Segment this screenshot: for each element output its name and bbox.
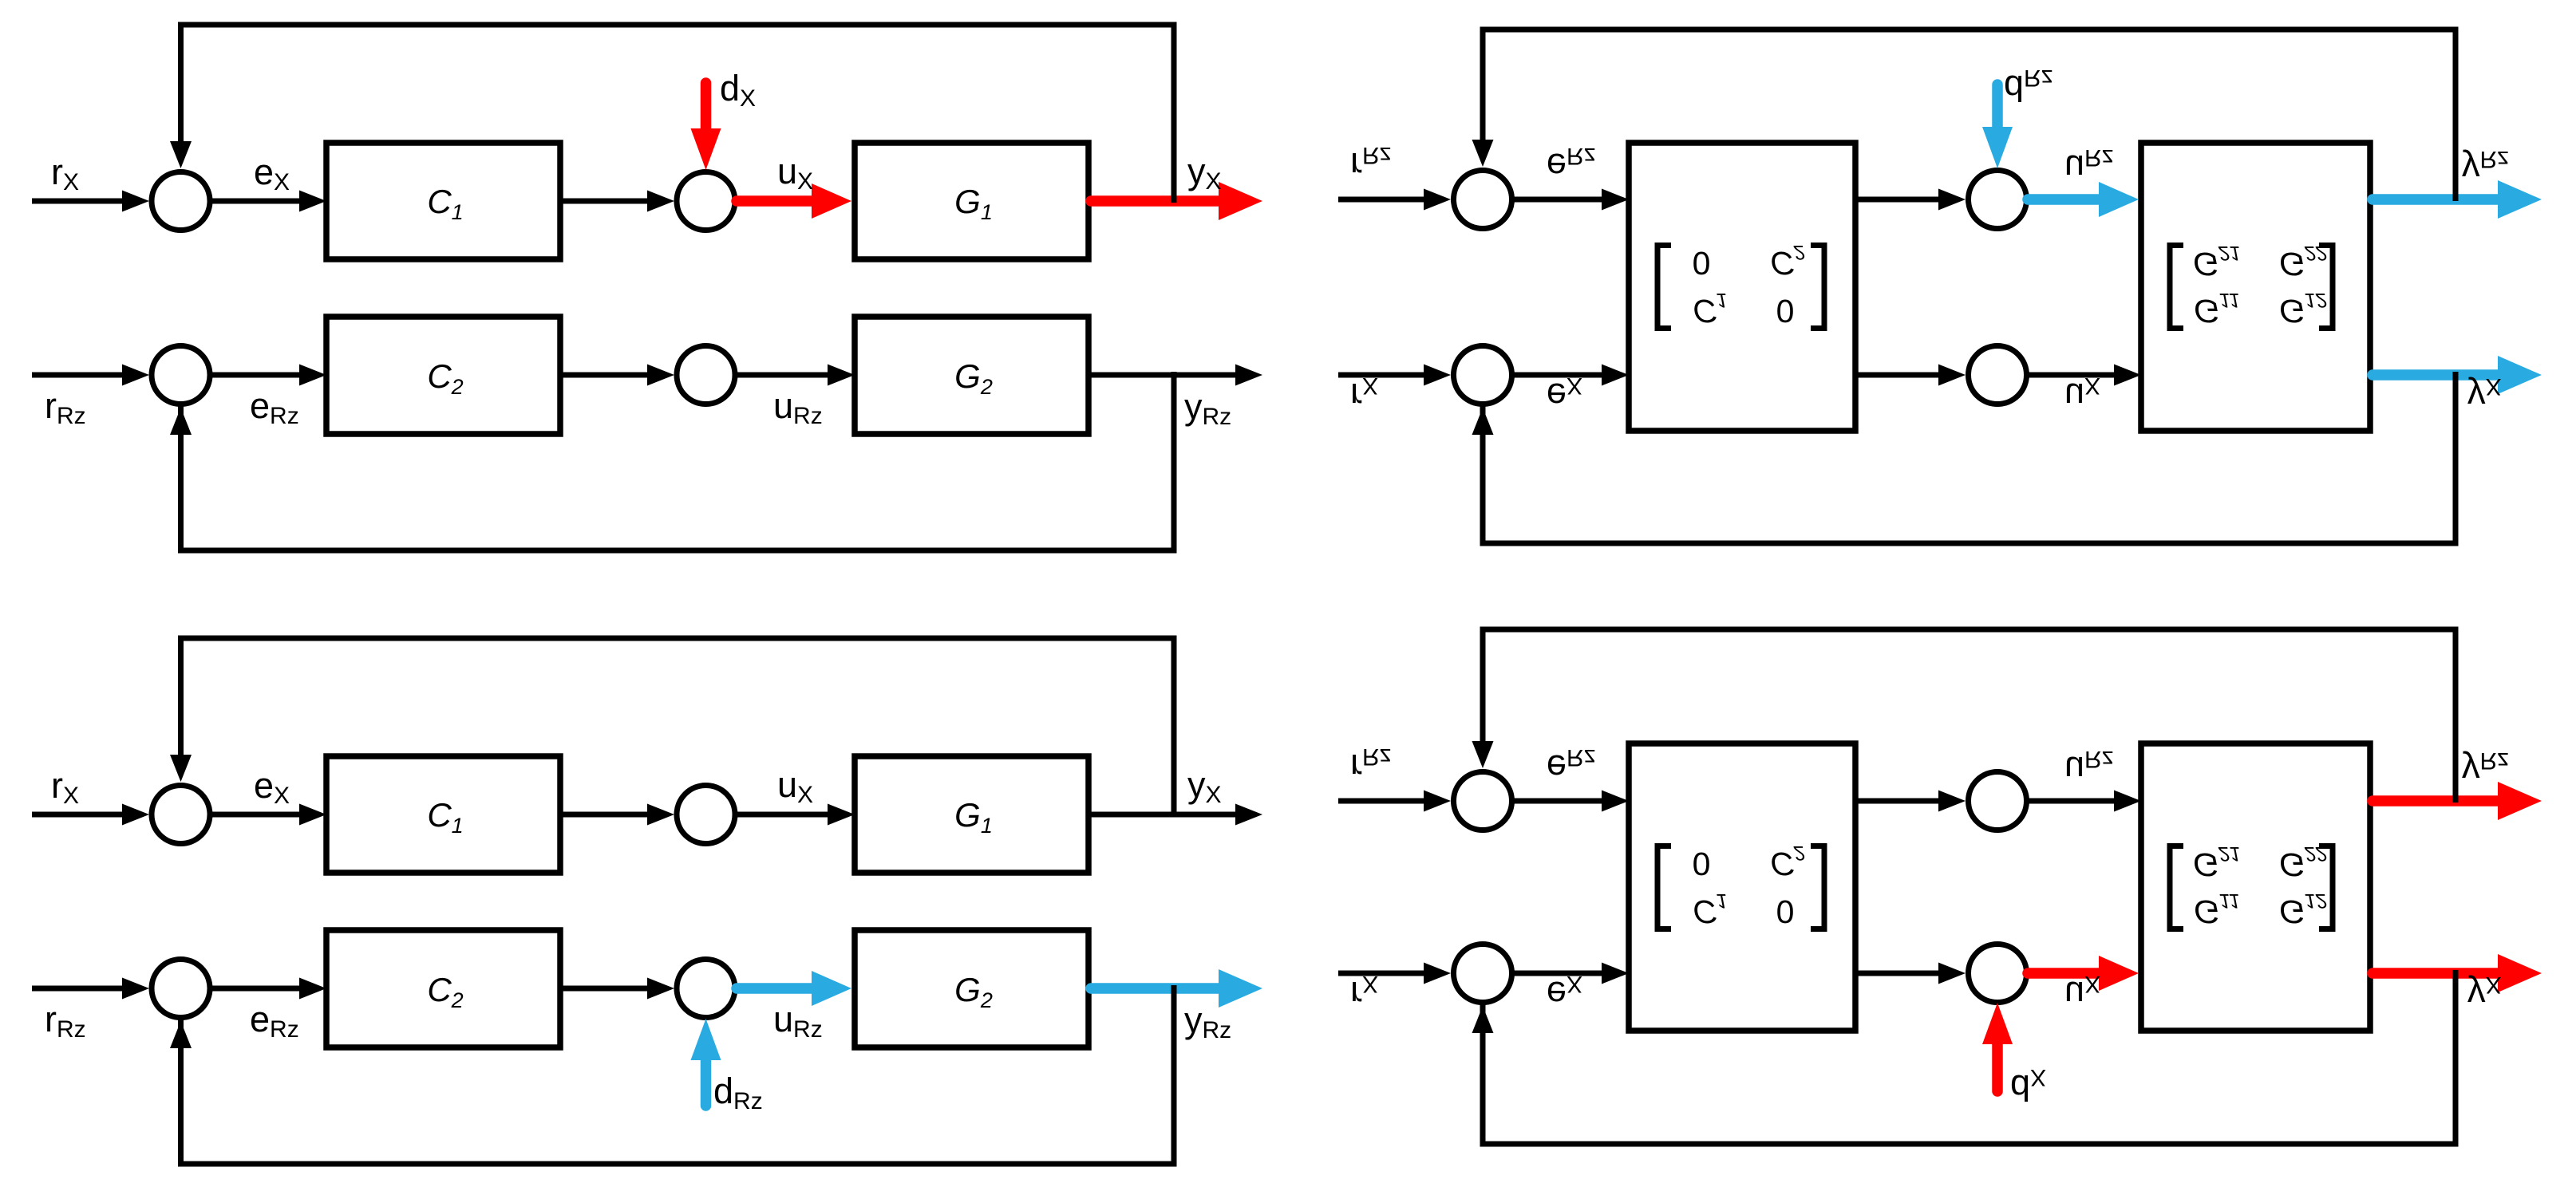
svg-text:0: 0	[1776, 293, 1795, 329]
svg-text:0: 0	[1776, 893, 1795, 930]
svg-text:0: 0	[1693, 245, 1711, 282]
svg-text:0: 0	[1693, 846, 1711, 882]
